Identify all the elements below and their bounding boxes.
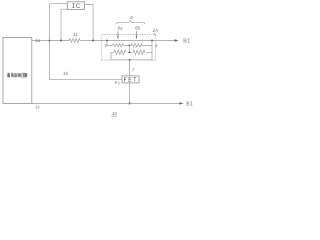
resistor 6a zigzag — [113, 44, 124, 47]
wire: left riser x=49.4 (IC loop / down to FET gate wire) — [49, 4, 67, 80]
box 1 kanji label (simulated strokes) — [7, 73, 27, 78]
svg-text:5: 5 — [118, 82, 120, 86]
svg-text:7: 7 — [132, 67, 135, 72]
IC box — [67, 2, 84, 10]
junction dot right via — [151, 40, 153, 42]
output arrowhead bottom — [179, 102, 183, 104]
output arrowhead B1 (middle) — [175, 39, 179, 41]
wire: IC right lead and drop x=93.1 — [84, 4, 93, 40]
junction dot rail center — [129, 59, 131, 61]
junction dot row1 center — [128, 45, 130, 47]
wire: main horizontal line y=40.5 from box to output arrow — [32, 40, 175, 42]
junction at riser and main wire — [49, 40, 51, 42]
wire: left via drop — [106, 41, 108, 46]
svg-text:1a: 1a — [35, 38, 41, 43]
svg-text:6a: 6a — [118, 26, 123, 31]
dashed bottom edge segments outside solid rail — [102, 59, 156, 61]
FET box — [122, 76, 139, 83]
junction dot bottom wire — [129, 102, 131, 104]
svg-text:4: 4 — [155, 43, 158, 48]
wire: FET drain down to bottom wire — [129, 83, 131, 104]
resistor 11 zigzag — [69, 39, 80, 43]
wire: middle horizontal 1b line y=79.7 — [49, 79, 122, 81]
svg-text:1c: 1c — [35, 105, 40, 110]
detector circuit box 1 — [3, 38, 32, 104]
wire: gate line from rail to FET — [129, 60, 131, 76]
svg-text:1b: 1b — [63, 71, 68, 76]
brace 6 over 6a 6b — [116, 21, 145, 25]
wire: IC lower-left lead and drop x=61 — [61, 9, 67, 40]
resistor 6b zigzag — [131, 44, 142, 47]
svg-text:B1: B1 — [186, 102, 193, 108]
svg-text:B1: B1 — [183, 39, 190, 45]
arrow from 6a label — [117, 31, 119, 36]
svg-text:10: 10 — [112, 111, 118, 116]
junction dot x=93.1 on main wire — [92, 40, 94, 42]
junction dot x=61 on main wire — [60, 40, 62, 42]
wire: left lower corner x=111 — [110, 52, 112, 60]
row1 wire y=45.4 — [107, 44, 152, 46]
svg-text:11: 11 — [73, 32, 78, 37]
junction dot left via — [106, 40, 108, 42]
wire: bottom horizontal line y=103.4 — [32, 102, 180, 104]
lower resistor B zigzag — [133, 50, 145, 54]
wire: center link — [128, 45, 130, 52]
svg-text:6: 6 — [130, 15, 133, 20]
dashed resistor-network box (top, left, right edges) — [102, 35, 156, 61]
lower resistor A zigzag — [114, 50, 126, 54]
wire: right via x=152 down to rail — [151, 41, 153, 60]
junction dot row2 center — [129, 51, 131, 53]
arrow from 6b label — [136, 31, 138, 36]
svg-text:2A: 2A — [152, 28, 159, 33]
wire: bottom rail y=59.9 — [111, 59, 152, 61]
row2 wire y=52.3 — [111, 51, 152, 53]
svg-text:6b: 6b — [135, 26, 140, 31]
